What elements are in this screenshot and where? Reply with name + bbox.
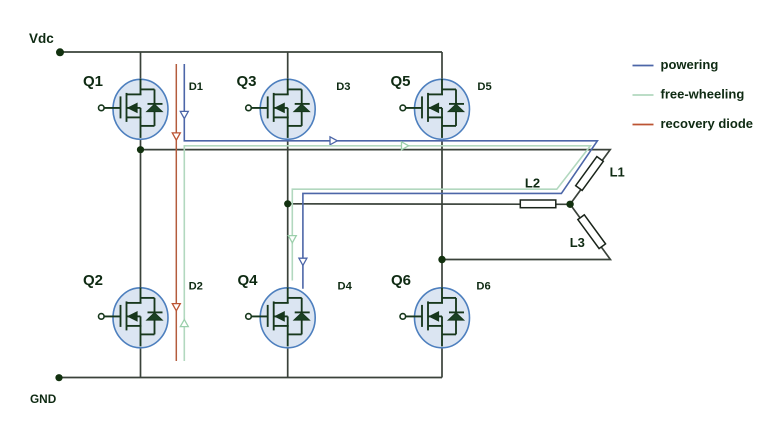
free-wheeling arrow down near Q4 [288,236,296,243]
legend powering line [633,65,654,67]
node phase C junction [438,256,445,263]
transistor Q4 [246,287,316,347]
wire: leg Q3/Q4 column [287,52,289,378]
legend recovery diode line [633,124,654,126]
svg-text:D2: D2 [189,281,203,293]
svg-text:L1: L1 [610,165,625,180]
wire: GND bottom rail [59,377,442,379]
svg-text:Q6: Q6 [391,272,411,289]
svg-text:D6: D6 [476,281,490,293]
svg-text:Q1: Q1 [83,73,103,90]
powering path (blue) [184,64,597,289]
recovery arrow down near D1 [172,133,180,140]
wire: leg Q5/Q6 column [441,52,443,378]
svg-text:recovery diode: recovery diode [661,116,754,131]
wire: phase C to L3 [442,204,610,259]
recovery diode path (red) [175,64,177,361]
svg-text:L2: L2 [525,175,540,190]
svg-text:Q4: Q4 [238,272,259,289]
inductor L3 [578,215,606,249]
wire: phase A to L1 [141,150,611,205]
transistor Q6 [400,287,470,347]
svg-text:Vdc: Vdc [29,31,54,46]
wire: DC+ leg Q1/Q2 column [140,52,142,378]
wire: phase B to L2 [288,203,570,206]
svg-text:D1: D1 [189,81,203,93]
node Vdc terminal [56,48,64,56]
free-wheeling arrow up near Q2 [180,320,188,327]
svg-text:GND: GND [30,392,57,406]
svg-text:free-wheeling: free-wheeling [661,87,745,102]
svg-text:Q5: Q5 [391,73,411,90]
svg-text:powering: powering [661,57,719,72]
svg-text:L3: L3 [570,235,585,250]
free-wheeling arrow right on phase A [402,142,409,150]
wire: Vdc top rail [60,51,442,53]
inductor L2 [520,200,556,208]
powering arrow down near Q4 [299,258,307,265]
svg-text:Q2: Q2 [83,272,103,289]
svg-text:D4: D4 [338,281,353,293]
node star point [566,201,573,208]
inductor L1 [576,157,604,191]
powering arrow right on phase A [330,137,337,145]
transistor Q5 [400,79,470,139]
node GND terminal [55,374,62,381]
recovery arrow down near D2 [172,304,180,311]
transistor Q3 [246,79,316,139]
free-wheeling path (green) [184,146,590,361]
svg-text:Q3: Q3 [237,73,257,90]
node phase A junction [137,146,144,153]
svg-text:D5: D5 [477,81,491,93]
svg-text:D3: D3 [336,81,350,93]
transistor Q1 [99,79,169,139]
node phase B junction [284,200,291,207]
legend free-wheeling line [633,94,654,96]
transistor Q2 [99,287,169,347]
powering arrow down near D1 [180,111,188,118]
